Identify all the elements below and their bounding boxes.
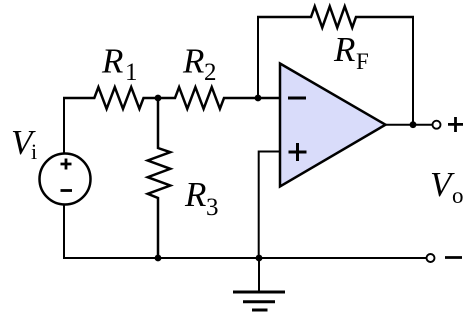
op-amp plus input symbol (289, 143, 307, 161)
svg-text:R: R (182, 42, 204, 81)
output terminal plus (open circle) (433, 121, 441, 129)
wire: non-inverting input to ground rail (259, 152, 281, 259)
wire: output from op-amp apex (385, 124, 433, 126)
wire: bottom rail (64, 257, 427, 259)
svg-text:2: 2 (204, 59, 217, 86)
voltage source minus sign (61, 189, 73, 192)
resistor RF on top feedback wire with leads (257, 6, 414, 27)
op-amp minus input symbol (288, 97, 306, 100)
svg-text:o: o (452, 183, 464, 208)
wire: ground stem (258, 258, 260, 291)
output terminal minus (open circle) (427, 254, 435, 262)
wire: feedback left vertical (257, 16, 259, 98)
output minus sign (445, 256, 462, 259)
resistor R1 with leads (63, 87, 158, 109)
wire: feedback right vertical (412, 16, 414, 125)
node C: output/feedback junction (410, 121, 417, 128)
voltage source Vi circle (40, 154, 91, 205)
ground symbol (233, 292, 285, 310)
svg-text:i: i (31, 139, 37, 164)
node B: inverting input junction (255, 95, 262, 102)
svg-text:R: R (333, 30, 355, 69)
svg-text:R: R (184, 175, 206, 214)
svg-text:R: R (101, 42, 123, 81)
resistor R3 vertical with leads (148, 98, 171, 258)
wire: left vertical from input node down to source top (63, 97, 65, 154)
svg-text:1: 1 (125, 59, 138, 86)
resistor R2 with leads (158, 87, 281, 109)
node A: junction R1/R2/R3 (155, 95, 162, 102)
node: R3 to bottom rail (155, 255, 162, 262)
op-amp U1 triangle (280, 64, 386, 187)
voltage source plus sign (61, 159, 72, 170)
svg-text:F: F (356, 49, 369, 74)
output plus sign (448, 117, 463, 132)
svg-text:3: 3 (206, 194, 219, 221)
node D: ground junction on bottom rail (256, 255, 263, 262)
wire: source bottom to bottom rail (63, 205, 65, 260)
